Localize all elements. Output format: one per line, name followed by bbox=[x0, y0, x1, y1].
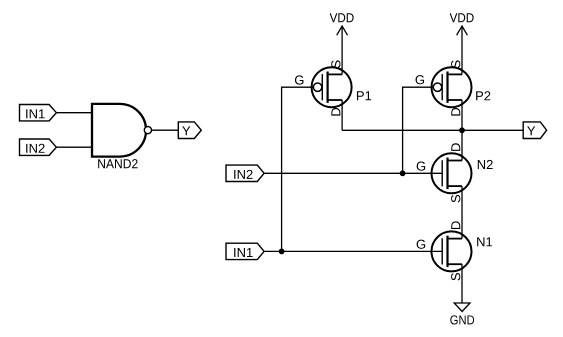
input flag IN2 (gate symbol side) bbox=[20, 139, 57, 155]
wire NAND output to Y flag bbox=[152, 129, 179, 131]
NAND gate body bbox=[92, 104, 146, 157]
label N1 bbox=[477, 237, 492, 246]
N1 source lead wire to GND bbox=[461, 264, 463, 303]
label NAND2 bbox=[98, 159, 137, 168]
N2 drain pin label D bbox=[451, 143, 460, 151]
power symbol VDD above P2 bbox=[450, 13, 474, 74]
transistor N2 (NMOS) bbox=[432, 153, 472, 193]
wire P1 drain to node Y bbox=[342, 129, 462, 131]
node Y junction dot bbox=[459, 127, 465, 133]
P1 gate pin label G bbox=[295, 75, 303, 84]
junction dot IN2 / P2 gate net bbox=[400, 170, 406, 176]
N1 source pin label S bbox=[451, 273, 460, 280]
input flag IN2 (transistor side) bbox=[226, 165, 264, 181]
wire IN1 to NAND input A bbox=[56, 112, 92, 114]
label P2 bbox=[476, 91, 490, 100]
N1 drain pin label D bbox=[451, 221, 460, 229]
output flag Y (transistor side) bbox=[523, 122, 546, 139]
transistor P2 (PMOS) bbox=[432, 67, 472, 107]
N2 gate pin label G bbox=[417, 162, 425, 171]
P2 source pin label S bbox=[451, 60, 460, 67]
P2 drain lead wire bbox=[461, 100, 463, 130]
ground symbol GND bbox=[450, 303, 474, 325]
wire IN2 to NAND input B bbox=[56, 146, 92, 148]
power symbol VDD above P1 bbox=[330, 13, 354, 74]
wire P2 gate to IN2 net bbox=[403, 87, 434, 173]
P1 drain pin label D bbox=[331, 108, 340, 116]
input flag IN1 (transistor side) bbox=[226, 243, 264, 259]
N2 source pin label S bbox=[451, 195, 460, 202]
wire IN2 to N2 gate bbox=[264, 172, 442, 174]
NAND output inversion bubble bbox=[144, 127, 151, 134]
wire IN1 to N1 gate bbox=[264, 250, 442, 252]
input flag IN1 (gate symbol side) bbox=[20, 105, 57, 121]
transistor N1 (NMOS) bbox=[432, 231, 472, 271]
P2 drain pin label D bbox=[451, 108, 460, 116]
P2 gate pin label G bbox=[416, 75, 424, 84]
output flag Y (gate symbol side) bbox=[178, 122, 201, 139]
wire node Y to output flag bbox=[462, 129, 523, 131]
N1 gate pin label G bbox=[417, 240, 425, 249]
junction dot IN1 / P1 gate net bbox=[279, 249, 285, 255]
wire N2 source to N1 drain bbox=[461, 186, 463, 239]
wire P1 gate to IN1 net bbox=[282, 87, 313, 251]
N2 drain lead wire from node Y bbox=[461, 130, 463, 160]
P1 source pin label S bbox=[331, 60, 340, 67]
transistor P1 (PMOS) bbox=[312, 67, 352, 107]
P1 drain lead wire bbox=[341, 100, 343, 130]
label P1 bbox=[357, 91, 371, 100]
label N2 bbox=[478, 160, 493, 169]
